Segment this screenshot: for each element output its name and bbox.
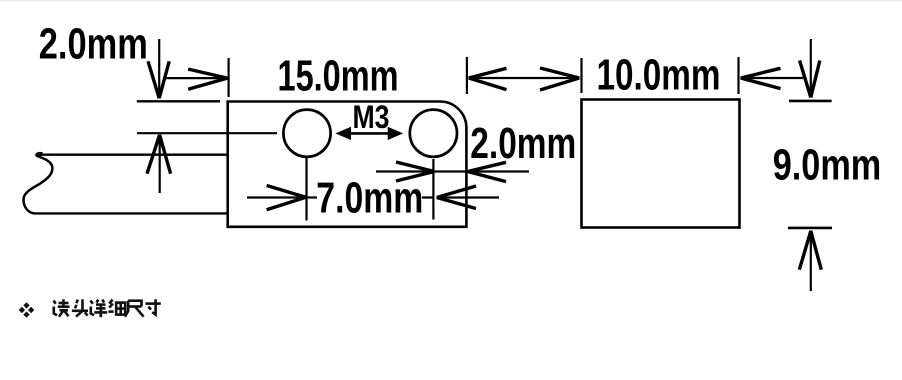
dim 7.0mm right outside arrow xyxy=(422,186,499,209)
svg-text:15.0mm: 15.0mm xyxy=(278,51,399,100)
dim 7.0mm left outside arrow xyxy=(247,186,317,210)
char 寸 xyxy=(146,302,161,305)
dim 15.0mm left outside arrow xyxy=(163,69,227,89)
dim 15.0mm left extension tick xyxy=(228,58,230,97)
caption text 读头详细尺寸 (drawn strokes) xyxy=(54,299,161,317)
dim 10.0mm right extension tick xyxy=(737,57,739,94)
cable top line xyxy=(38,153,227,155)
svg-text:7.0mm: 7.0mm xyxy=(316,173,423,222)
svg-text:9.0mm: 9.0mm xyxy=(773,141,882,190)
char 读 xyxy=(54,301,56,304)
char 详 xyxy=(91,301,93,304)
dim 2.0mm (top-left) up arrow xyxy=(147,135,171,194)
svg-text:M3: M3 xyxy=(353,99,390,135)
dim 10.0mm left extension tick xyxy=(580,58,582,93)
char 头 xyxy=(76,300,77,304)
svg-text:10.0mm: 10.0mm xyxy=(597,50,721,99)
top edge extension line xyxy=(137,100,220,102)
hole H2 (right M3 hole) xyxy=(410,110,457,157)
hole H1 centerline (vertical) xyxy=(305,158,307,221)
char 细 xyxy=(109,300,112,304)
char 尺 xyxy=(128,301,141,307)
svg-text:2.0mm: 2.0mm xyxy=(470,119,576,168)
dim 2.0mm (edge distance) line with inward arrows xyxy=(376,162,529,182)
hole H1 (left M3 hole) xyxy=(283,110,330,157)
dim 9.0mm top tick xyxy=(789,100,832,103)
dim 15.0mm right extension tick xyxy=(466,57,468,94)
cable bottom line xyxy=(34,212,227,214)
faint top rule xyxy=(0,0,902,2)
dim 9.0mm top down arrow xyxy=(800,39,820,98)
dim 9.0mm bottom tick xyxy=(788,227,832,230)
M3 callout double arrow xyxy=(337,128,402,140)
caption bullet (four-diamond) xyxy=(19,302,35,318)
svg-text:2.0mm: 2.0mm xyxy=(39,19,148,68)
cable break squiggle xyxy=(24,153,53,213)
sensor body (right square) xyxy=(582,100,740,228)
dim 9.0mm bottom up arrow xyxy=(799,231,821,292)
dim 2.0mm (top-left) down arrow xyxy=(148,39,169,99)
read head body (left shape, rounded top-right corner) xyxy=(228,102,467,227)
dim 10.0mm right outside arrow xyxy=(741,68,804,88)
hole H2 centerline (vertical) xyxy=(432,159,434,220)
gap arrows between shapes (15.0 right arrow + 10.0 left arrow) xyxy=(469,68,580,90)
hole centerline (horizontal, extended left) xyxy=(137,132,277,134)
